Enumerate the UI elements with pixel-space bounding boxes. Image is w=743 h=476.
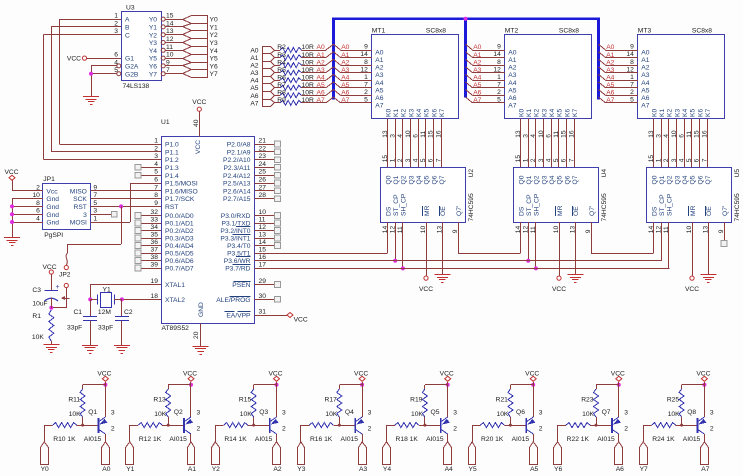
svg-text:A1: A1: [508, 57, 516, 64]
svg-text:8: 8: [36, 200, 40, 207]
svg-text:B: B: [125, 25, 130, 32]
svg-text:A2: A2: [341, 59, 349, 66]
svg-text:P2.6/A14: P2.6/A14: [223, 188, 251, 195]
svg-text:Q3: Q3: [408, 175, 415, 184]
svg-text:R9: R9: [277, 97, 286, 104]
svg-text:Y3: Y3: [210, 40, 218, 47]
svg-text:6: 6: [36, 208, 40, 215]
svg-text:Gnd: Gnd: [46, 220, 59, 227]
svg-text:K3: K3: [674, 109, 681, 117]
svg-text:Y4: Y4: [149, 48, 157, 55]
svg-text:A5: A5: [508, 87, 516, 94]
svg-text:15: 15: [428, 130, 435, 138]
svg-text:AI015: AI015: [597, 436, 615, 443]
svg-text:A6: A6: [616, 466, 624, 473]
svg-text:20: 20: [193, 331, 200, 339]
svg-text:R1: R1: [32, 313, 41, 320]
svg-text:10: 10: [671, 130, 678, 138]
svg-text:6: 6: [694, 158, 701, 162]
svg-text:3: 3: [111, 410, 115, 417]
svg-text:A2: A2: [606, 59, 614, 66]
svg-text:K4: K4: [682, 109, 689, 117]
svg-text:A6: A6: [375, 95, 383, 102]
svg-text:SC8x8: SC8x8: [692, 28, 712, 35]
svg-text:5: 5: [154, 169, 158, 176]
svg-text:12: 12: [166, 36, 174, 43]
svg-text:13: 13: [259, 232, 267, 239]
svg-text:Q7: Q7: [705, 175, 712, 184]
svg-text:A0: A0: [317, 44, 325, 51]
svg-text:P3.0/RXD: P3.0/RXD: [221, 213, 251, 220]
svg-text:3: 3: [405, 158, 412, 162]
svg-text:P1.7/SCK: P1.7/SCK: [165, 196, 195, 203]
svg-text:5: 5: [686, 158, 693, 162]
svg-text:2: 2: [497, 89, 501, 96]
svg-text:10R: 10R: [302, 97, 314, 104]
svg-text:24: 24: [259, 161, 267, 168]
svg-text:A4: A4: [606, 74, 614, 81]
svg-text:29: 29: [259, 278, 267, 285]
svg-text:R23: R23: [581, 397, 594, 404]
svg-text:A1: A1: [641, 57, 649, 64]
svg-text:8: 8: [497, 59, 501, 66]
svg-text:K7: K7: [439, 109, 446, 117]
svg-text:5: 5: [93, 200, 97, 207]
svg-text:Q0: Q0: [651, 175, 658, 184]
svg-text:A4: A4: [317, 74, 325, 81]
svg-text:A4: A4: [250, 78, 258, 85]
svg-text:1: 1: [364, 74, 368, 81]
svg-text:AI015: AI015: [512, 436, 530, 443]
svg-text:33: 33: [151, 217, 159, 224]
svg-text:R20 1K: R20 1K: [481, 436, 504, 443]
svg-text:VCC: VCC: [67, 56, 81, 63]
svg-text:P0.3/AD3: P0.3/AD3: [165, 236, 194, 243]
svg-text:Q7': Q7': [722, 206, 729, 216]
svg-text:A5: A5: [250, 85, 258, 92]
svg-text:A3: A3: [250, 70, 258, 77]
svg-text:6: 6: [114, 52, 118, 59]
svg-text:6: 6: [154, 177, 158, 184]
svg-text:R4: R4: [277, 59, 286, 66]
svg-text:Q3: Q3: [674, 175, 681, 184]
svg-text:P1.3: P1.3: [165, 165, 179, 172]
svg-text:VCC: VCC: [685, 286, 699, 293]
svg-text:4: 4: [154, 161, 158, 168]
svg-text:Y4: Y4: [383, 466, 391, 473]
svg-text:1: 1: [497, 74, 501, 81]
svg-text:R3: R3: [277, 52, 286, 59]
svg-text:2: 2: [197, 425, 201, 432]
svg-text:10R: 10R: [302, 74, 314, 81]
svg-text:10K: 10K: [411, 411, 423, 418]
svg-text:P0.0/AD0: P0.0/AD0: [165, 213, 194, 220]
svg-text:33pF: 33pF: [67, 325, 82, 332]
svg-text:Y4: Y4: [210, 48, 218, 55]
svg-text:14: 14: [626, 51, 634, 58]
svg-text:P2.2/A10: P2.2/A10: [223, 157, 251, 164]
svg-text:3: 3: [523, 134, 530, 138]
svg-text:3: 3: [671, 158, 678, 162]
svg-text:P2.1/A9: P2.1/A9: [227, 149, 251, 156]
svg-text:MT3: MT3: [638, 28, 652, 35]
svg-text:16: 16: [701, 130, 708, 138]
svg-text:K2: K2: [667, 109, 674, 117]
svg-text:A4: A4: [445, 466, 453, 473]
svg-text:4: 4: [530, 134, 537, 138]
svg-text:Y6: Y6: [149, 64, 157, 71]
svg-text:4: 4: [545, 158, 552, 162]
svg-text:3: 3: [282, 410, 286, 417]
svg-text:Q2: Q2: [401, 175, 408, 184]
svg-text:SC8x8: SC8x8: [426, 28, 446, 35]
svg-text:A7: A7: [606, 97, 614, 104]
svg-text:Y0: Y0: [41, 466, 49, 473]
svg-text:OE: OE: [706, 206, 713, 216]
svg-text:A1: A1: [473, 52, 481, 59]
svg-text:10R: 10R: [302, 44, 314, 51]
svg-text:P1.5/MOSI: P1.5/MOSI: [165, 181, 198, 188]
svg-text:4: 4: [397, 134, 404, 138]
svg-text:MOSI: MOSI: [70, 220, 87, 227]
svg-text:VCC: VCC: [440, 370, 454, 377]
svg-text:JP1: JP1: [43, 176, 55, 183]
svg-text:P2.7/A15: P2.7/A15: [223, 196, 251, 203]
svg-text:12: 12: [626, 66, 634, 73]
svg-text:9: 9: [497, 44, 501, 51]
svg-text:A1: A1: [606, 52, 614, 59]
svg-text:VCC: VCC: [696, 370, 710, 377]
svg-text:10R: 10R: [302, 90, 314, 97]
svg-text:12: 12: [360, 66, 368, 73]
svg-text:8: 8: [630, 59, 634, 66]
svg-text:32: 32: [151, 209, 159, 216]
svg-text:Q0: Q0: [518, 175, 525, 184]
svg-text:6: 6: [545, 134, 552, 138]
svg-text:AI015: AI015: [255, 436, 273, 443]
svg-text:A5: A5: [375, 87, 383, 94]
svg-text:MISO: MISO: [70, 188, 87, 195]
svg-text:ST_CP: ST_CP: [659, 194, 666, 216]
svg-text:4: 4: [678, 158, 685, 162]
svg-text:10K: 10K: [668, 411, 680, 418]
svg-text:C2: C2: [124, 309, 133, 316]
svg-text:26: 26: [259, 177, 267, 184]
svg-text:4: 4: [663, 134, 670, 138]
svg-text:MR: MR: [424, 205, 431, 216]
svg-text:15: 15: [259, 247, 267, 254]
svg-text:3: 3: [368, 410, 372, 417]
svg-text:3: 3: [656, 134, 663, 138]
svg-text:6: 6: [412, 134, 419, 138]
svg-text:A2: A2: [273, 466, 281, 473]
svg-text:Y5: Y5: [210, 56, 218, 63]
svg-text:C: C: [125, 32, 130, 39]
svg-text:K1: K1: [659, 109, 666, 117]
svg-text:A: A: [125, 17, 130, 24]
svg-text:11: 11: [166, 44, 173, 51]
svg-text:13: 13: [515, 130, 522, 138]
svg-text:5: 5: [497, 97, 501, 104]
svg-text:VCC: VCC: [4, 169, 18, 176]
svg-text:2: 2: [282, 425, 286, 432]
svg-text:R14 1K: R14 1K: [224, 436, 247, 443]
svg-text:3: 3: [453, 410, 457, 417]
svg-text:MR: MR: [690, 205, 697, 216]
svg-text:A6: A6: [341, 90, 349, 97]
svg-text:Gnd: Gnd: [46, 196, 59, 203]
svg-text:K0: K0: [385, 109, 392, 117]
svg-text:5: 5: [420, 158, 427, 162]
svg-text:2: 2: [624, 425, 628, 432]
svg-text:16: 16: [259, 254, 267, 261]
svg-text:R25: R25: [667, 397, 680, 404]
svg-text:A6: A6: [250, 93, 258, 100]
svg-text:11: 11: [663, 226, 670, 233]
svg-text:2: 2: [630, 89, 634, 96]
svg-text:Y2: Y2: [212, 466, 220, 473]
svg-text:A7: A7: [701, 466, 709, 473]
svg-text:Y7: Y7: [210, 71, 218, 78]
svg-text:A2: A2: [317, 59, 325, 66]
svg-text:U5: U5: [734, 169, 741, 178]
svg-text:6: 6: [678, 134, 685, 138]
svg-text:A2: A2: [641, 65, 649, 72]
svg-text:Q5: Q5: [690, 175, 697, 184]
svg-text:30: 30: [259, 293, 267, 300]
svg-text:P3.4/T0: P3.4/T0: [227, 243, 251, 250]
svg-text:8: 8: [364, 59, 368, 66]
svg-text:Y5: Y5: [149, 56, 157, 63]
svg-text:A4: A4: [641, 80, 649, 87]
svg-text:10: 10: [405, 130, 412, 138]
svg-text:MT1: MT1: [372, 28, 386, 35]
svg-text:ST_CP: ST_CP: [526, 194, 533, 216]
svg-text:Y2: Y2: [149, 32, 157, 39]
svg-text:Y6: Y6: [554, 466, 562, 473]
svg-text:A7: A7: [641, 102, 649, 109]
svg-text:A6: A6: [317, 90, 325, 97]
svg-text:12: 12: [493, 66, 501, 73]
svg-text:K2: K2: [534, 109, 541, 117]
svg-text:19: 19: [151, 278, 159, 285]
svg-text:XTAL1: XTAL1: [165, 282, 185, 289]
svg-text:21: 21: [259, 138, 267, 145]
svg-text:AI015: AI015: [426, 436, 444, 443]
svg-text:VCC: VCC: [294, 317, 308, 324]
svg-text:VCC: VCC: [183, 370, 197, 377]
svg-text:10: 10: [259, 209, 267, 216]
svg-text:RST: RST: [165, 204, 178, 211]
svg-text:15: 15: [166, 13, 174, 20]
svg-text:VCC: VCC: [195, 140, 202, 154]
svg-text:Y2: Y2: [210, 32, 218, 39]
svg-text:4: 4: [412, 158, 419, 162]
svg-text:P2.4/A12: P2.4/A12: [223, 173, 251, 180]
svg-text:5: 5: [630, 97, 634, 104]
svg-text:2: 2: [368, 425, 372, 432]
svg-text:16: 16: [435, 130, 442, 138]
svg-text:13: 13: [648, 130, 655, 138]
svg-text:VCC: VCC: [525, 370, 539, 377]
svg-text:A1: A1: [188, 466, 196, 473]
svg-text:6: 6: [428, 158, 435, 162]
svg-text:A7: A7: [375, 102, 383, 109]
svg-text:R5: R5: [277, 67, 286, 74]
svg-text:A7: A7: [250, 100, 258, 107]
svg-text:A5: A5: [317, 82, 325, 89]
svg-text:SCK: SCK: [73, 196, 87, 203]
svg-text:A0: A0: [341, 44, 349, 51]
svg-text:P0.4/AD4: P0.4/AD4: [165, 243, 194, 250]
svg-text:37: 37: [151, 247, 159, 254]
svg-text:JP2: JP2: [59, 271, 71, 278]
svg-text:15: 15: [561, 130, 568, 138]
svg-text:Q5: Q5: [424, 175, 431, 184]
svg-text:14: 14: [493, 51, 501, 58]
svg-text:C3: C3: [32, 287, 41, 294]
svg-text:SH_CP: SH_CP: [534, 193, 541, 216]
svg-text:P2.5/A13: P2.5/A13: [223, 181, 251, 188]
svg-text:Q4: Q4: [416, 175, 423, 184]
svg-text:A3: A3: [317, 67, 325, 74]
svg-text:K4: K4: [416, 109, 423, 117]
svg-text:2: 2: [111, 425, 115, 432]
svg-text:Y1: Y1: [210, 24, 218, 31]
svg-text:R2: R2: [277, 44, 286, 51]
svg-text:K7: K7: [572, 109, 579, 117]
svg-text:12M: 12M: [98, 309, 111, 316]
svg-text:K3: K3: [408, 109, 415, 117]
svg-text:Q7': Q7': [589, 206, 596, 216]
svg-text:GND: GND: [198, 302, 205, 317]
svg-text:Y3: Y3: [297, 466, 305, 473]
svg-text:3: 3: [197, 410, 201, 417]
svg-text:K6: K6: [697, 109, 704, 117]
svg-text:7: 7: [630, 82, 634, 89]
svg-text:10K: 10K: [240, 411, 252, 418]
svg-text:DS: DS: [385, 206, 392, 216]
svg-text:P0.6/AD6: P0.6/AD6: [165, 258, 194, 265]
svg-text:OE: OE: [440, 206, 447, 216]
svg-text:K6: K6: [564, 109, 571, 117]
svg-text:RST: RST: [74, 204, 87, 211]
svg-text:10R: 10R: [302, 52, 314, 59]
svg-text:+: +: [56, 284, 60, 291]
svg-text:Q7: Q7: [602, 409, 611, 416]
svg-text:A2: A2: [375, 65, 383, 72]
svg-text:VCC: VCC: [192, 99, 206, 106]
svg-text:Y7: Y7: [640, 466, 648, 473]
svg-text:A3: A3: [341, 67, 349, 74]
svg-text:P2.3/A11: P2.3/A11: [223, 165, 250, 172]
svg-text:3: 3: [624, 410, 628, 417]
svg-text:7: 7: [568, 158, 575, 162]
svg-text:3: 3: [710, 410, 714, 417]
svg-text:P1.6/MISO: P1.6/MISO: [165, 188, 198, 195]
svg-text:1: 1: [523, 158, 530, 162]
svg-text:R17: R17: [325, 397, 338, 404]
svg-text:A0: A0: [375, 50, 383, 57]
svg-text:SH_CP: SH_CP: [401, 193, 408, 216]
svg-text:10R: 10R: [302, 67, 314, 74]
svg-text:11: 11: [397, 226, 404, 233]
svg-text:Q8: Q8: [687, 409, 696, 416]
svg-text:12: 12: [259, 224, 267, 231]
svg-text:R13: R13: [153, 397, 166, 404]
svg-text:P0.5/AD5: P0.5/AD5: [165, 251, 194, 258]
svg-text:AI015: AI015: [84, 436, 102, 443]
svg-text:7: 7: [497, 82, 501, 89]
svg-text:R21: R21: [496, 397, 509, 404]
svg-text:AI015: AI015: [341, 436, 359, 443]
svg-text:74HC595: 74HC595: [468, 193, 475, 222]
svg-text:11: 11: [553, 131, 560, 138]
svg-text:2: 2: [453, 425, 457, 432]
svg-text:10K: 10K: [582, 411, 594, 418]
svg-text:17: 17: [259, 262, 267, 269]
svg-text:10R: 10R: [302, 82, 314, 89]
svg-text:2: 2: [364, 89, 368, 96]
svg-text:DS: DS: [651, 206, 658, 216]
svg-text:A3: A3: [375, 72, 383, 79]
svg-text:15: 15: [648, 155, 655, 163]
svg-text:Q1: Q1: [659, 175, 666, 184]
svg-text:VCC: VCC: [419, 286, 433, 293]
svg-text:A7: A7: [341, 97, 349, 104]
svg-text:MT2: MT2: [505, 28, 519, 35]
svg-text:7: 7: [701, 158, 708, 162]
svg-text:3: 3: [538, 158, 545, 162]
svg-text:A0: A0: [606, 44, 614, 51]
svg-text:A6: A6: [641, 95, 649, 102]
svg-text:3: 3: [539, 410, 543, 417]
svg-text:VCC: VCC: [42, 264, 56, 271]
svg-text:A4: A4: [375, 80, 383, 87]
svg-text:34: 34: [151, 224, 159, 231]
svg-text:Q1: Q1: [526, 175, 533, 184]
svg-text:PgSPI: PgSPI: [44, 232, 63, 239]
svg-text:DS: DS: [518, 206, 525, 216]
svg-text:1: 1: [656, 158, 663, 162]
svg-text:R15: R15: [239, 397, 252, 404]
svg-text:A5: A5: [641, 87, 649, 94]
svg-text:Q2: Q2: [174, 409, 183, 416]
svg-text:PSEN: PSEN: [232, 282, 250, 289]
svg-text:VCC: VCC: [97, 370, 111, 377]
svg-text:36: 36: [151, 239, 159, 246]
svg-text:10K: 10K: [154, 411, 166, 418]
svg-text:A2: A2: [473, 59, 481, 66]
svg-text:14: 14: [259, 239, 267, 246]
svg-text:Q5: Q5: [431, 409, 440, 416]
svg-text:U4: U4: [601, 169, 608, 178]
svg-text:2: 2: [154, 145, 158, 152]
svg-text:Q2: Q2: [534, 175, 541, 184]
svg-text:14: 14: [166, 20, 174, 27]
svg-text:74LS138: 74LS138: [123, 83, 150, 90]
svg-text:4: 4: [36, 216, 40, 223]
svg-text:P0.1/AD1: P0.1/AD1: [165, 221, 194, 228]
svg-text:2: 2: [710, 425, 714, 432]
svg-text:33pF: 33pF: [98, 325, 113, 332]
svg-text:Q7': Q7': [456, 206, 463, 216]
svg-text:P1.4: P1.4: [165, 173, 179, 180]
svg-text:A5: A5: [530, 466, 538, 473]
svg-text:A7: A7: [508, 102, 516, 109]
svg-text:2: 2: [539, 425, 543, 432]
svg-text:Gnd: Gnd: [46, 212, 59, 219]
